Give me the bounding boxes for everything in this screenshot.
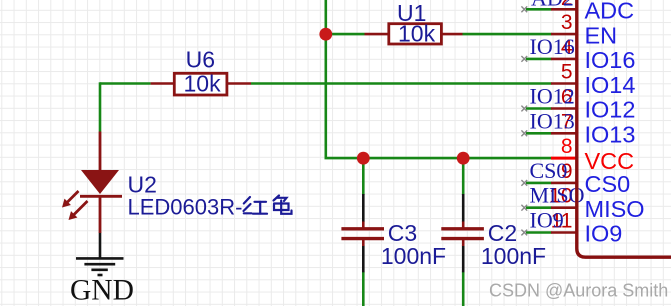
svg-text:100nF: 100nF [381,243,446,269]
svg-text:IO9: IO9 [585,221,623,247]
svg-text:IO13: IO13 [530,108,575,133]
svg-text:IO13: IO13 [585,122,636,148]
svg-text:IO16: IO16 [530,34,575,59]
svg-text:IO9: IO9 [530,208,564,233]
svg-text:U6: U6 [186,47,215,73]
svg-text:IO12: IO12 [530,84,575,109]
svg-text:CS0: CS0 [530,158,568,183]
svg-text:AD2: AD2 [531,0,574,11]
svg-text:GND: GND [70,275,134,306]
svg-text:IO12: IO12 [585,97,636,123]
svg-text:10k: 10k [398,21,436,47]
svg-text:CSDN @Aurora Smith: CSDN @Aurora Smith [489,281,668,301]
svg-text:VCC: VCC [585,148,635,174]
svg-text:MISO: MISO [585,196,645,222]
svg-text:ADC: ADC [585,0,635,24]
svg-text:EN: EN [585,22,618,48]
svg-text:5: 5 [561,61,573,84]
svg-text:3: 3 [561,11,573,34]
svg-text:CS0: CS0 [585,171,631,197]
svg-text:100nF: 100nF [481,243,546,269]
svg-text:8: 8 [561,135,573,158]
svg-text:IO16: IO16 [585,47,636,73]
svg-text:IO14: IO14 [585,72,636,98]
svg-text:10k: 10k [184,71,222,97]
svg-text:LED0603R-: LED0603R- [128,195,243,220]
